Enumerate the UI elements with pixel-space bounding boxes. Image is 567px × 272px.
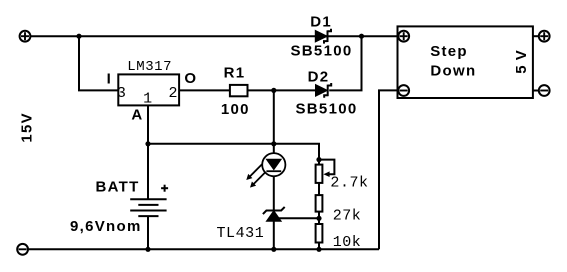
svg-text:TL431: TL431 (217, 225, 265, 242)
svg-text:Down: Down (430, 63, 476, 80)
svg-text:1: 1 (143, 91, 153, 108)
diode D1 SB5100 (315, 29, 331, 44)
wire 10k to rail (318, 243, 320, 250)
wire R1 to D2 (248, 89, 316, 91)
trimmer wiper arrow (319, 160, 334, 177)
svg-text:BATT: BATT (96, 178, 140, 195)
svg-text:A: A (131, 106, 142, 123)
svg-text:100: 100 (221, 101, 250, 118)
battery plus sign (161, 185, 168, 192)
node 10k rail junction (316, 247, 321, 252)
node ADJ junction (145, 141, 150, 146)
regulator U1 LM317 (118, 74, 179, 105)
svg-text:D2: D2 (308, 68, 330, 85)
svg-text:D1: D1 (310, 13, 332, 30)
trimmer resistor 2.7k (316, 165, 323, 183)
LED (262, 153, 285, 176)
node trimmer wiper junction (316, 157, 321, 162)
resistor 27k (316, 195, 323, 212)
svg-text:I: I (107, 70, 111, 87)
svg-text:SB5100: SB5100 (291, 43, 353, 60)
terminal step-down plus in (398, 31, 409, 42)
svg-text:3: 3 (117, 85, 127, 102)
node divider tap junction (316, 216, 321, 221)
wire D2 cathode up to top rail (329, 36, 361, 90)
resistor R1 (230, 85, 248, 96)
node R1/D2/LED junction (271, 88, 276, 93)
wire junction down to LED (273, 90, 275, 153)
TL431 shunt regulator (263, 207, 285, 221)
wire drop to LM317 input (79, 36, 118, 90)
wire step-down out plus (533, 35, 539, 37)
node LED top junction (271, 141, 276, 146)
terminal -15V return (17, 244, 28, 255)
svg-text:5 V: 5 V (513, 50, 530, 74)
wire LM317 ADJ down (147, 105, 149, 199)
node junction top-left (76, 34, 81, 39)
node junction D1/D2 (359, 34, 364, 39)
wire step-down out minus (533, 90, 539, 92)
terminal step-down minus in (398, 85, 409, 96)
svg-text:9,6Vnom: 9,6Vnom (70, 218, 142, 235)
terminal 5V out plus (539, 31, 550, 42)
battery BATT 9,6Vnom (130, 199, 166, 249)
wire TL431 ref to divider (278, 217, 320, 219)
svg-text:2: 2 (169, 85, 179, 102)
diode D2 SB5100 (316, 83, 332, 98)
wire 2.7k to 27k (318, 183, 320, 195)
LED light arrows (246, 164, 265, 187)
svg-text:O: O (184, 70, 196, 87)
wire top rail (31, 35, 399, 37)
node battery rail junction (145, 247, 150, 252)
svg-text:SB5100: SB5100 (296, 100, 358, 117)
node TL431 rail junction (271, 247, 276, 252)
svg-text:2.7k: 2.7k (330, 175, 368, 192)
resistor 10k (316, 224, 323, 243)
wire LED to TL431 (273, 176, 275, 210)
wire bottom rail (28, 248, 379, 250)
svg-text:15V: 15V (18, 112, 35, 143)
wire right return up to step-down minus (379, 90, 398, 249)
svg-text:Step: Step (430, 43, 468, 60)
svg-text:LM317: LM317 (127, 59, 172, 75)
svg-text:R1: R1 (224, 64, 246, 81)
wire LM317 out to R1 (179, 89, 229, 91)
step-down converter module box (398, 26, 533, 98)
wire TL431 anode to rail (273, 221, 275, 249)
terminal +15V input (20, 31, 31, 42)
wire ADJ to LED column (148, 143, 274, 145)
wire junction to divider chain (274, 144, 319, 165)
terminal 5V out minus (539, 85, 550, 96)
wire 27k to 10k (318, 212, 320, 224)
svg-text:27k: 27k (333, 208, 362, 225)
